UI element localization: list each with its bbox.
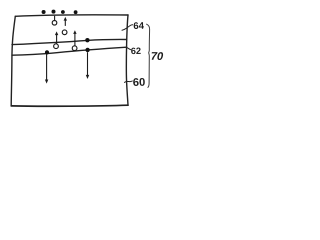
svg-text:60: 60 bbox=[133, 77, 146, 89]
svg-text:62: 62 bbox=[131, 46, 141, 56]
svg-text:64: 64 bbox=[133, 21, 145, 32]
svg-text:70: 70 bbox=[151, 51, 164, 63]
